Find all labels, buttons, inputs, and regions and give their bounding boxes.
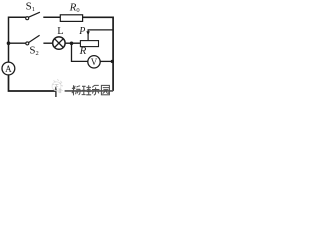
svg-text:P: P xyxy=(78,26,85,37)
svg-text:V: V xyxy=(91,57,98,67)
wire lamp to junction xyxy=(65,42,80,44)
voltmeter V xyxy=(88,56,100,68)
watermark text: 理 xyxy=(82,85,92,95)
node junction dot left rail xyxy=(7,41,11,45)
resistor R0 xyxy=(60,15,82,22)
wire S2 to lamp xyxy=(43,42,52,44)
lamp L xyxy=(53,37,65,49)
switch S2 lever xyxy=(29,35,40,42)
watermark text: 乐 xyxy=(92,85,99,95)
wire S1 to R0 xyxy=(43,16,60,18)
watermark text: 物 xyxy=(72,85,80,95)
wire voltmeter to right rail xyxy=(100,60,113,62)
wire R0 to right rail, down right side xyxy=(83,17,114,91)
switch S1 lever xyxy=(29,12,40,17)
slider arrowhead P xyxy=(86,31,89,35)
watermark seal logo xyxy=(52,79,63,93)
watermark text: 园 xyxy=(101,85,109,94)
svg-text:R: R xyxy=(79,45,87,57)
rheostat R body xyxy=(80,41,98,47)
svg-text:A: A xyxy=(5,64,12,74)
battery long plate (cut off at image bottom) xyxy=(55,87,57,97)
wire left rail below ammeter to bottom-left corner to battery xyxy=(9,75,56,91)
svg-text:L: L xyxy=(57,26,63,37)
ammeter A xyxy=(2,62,15,75)
wire junction to S2 xyxy=(9,42,26,44)
wire bottom (grey, passing under watermark text) xyxy=(65,90,114,92)
wire top-left: left rail top corner to S1 xyxy=(9,17,27,62)
battery short plate (faded under watermark) xyxy=(59,89,61,94)
switch S1 contact circle xyxy=(26,17,29,20)
node junction dot on right rail xyxy=(111,60,114,63)
wire voltmeter branch down and right xyxy=(72,44,88,61)
node junction dot lamp-rheostat-voltmeter xyxy=(70,42,74,46)
wire slider from right rail xyxy=(88,30,113,40)
switch S2 contact circle xyxy=(26,42,29,45)
